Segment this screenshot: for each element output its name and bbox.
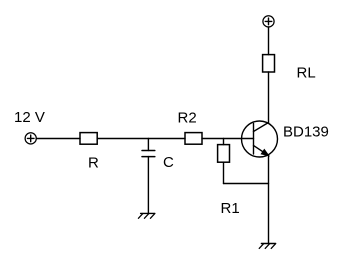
resistor R2 xyxy=(185,133,202,145)
wire R1 to emitter xyxy=(224,162,269,183)
wire source to R xyxy=(36,138,80,140)
wire RL to collector xyxy=(268,72,270,123)
svg-text:BD139: BD139 xyxy=(283,124,329,141)
resistor R xyxy=(80,133,97,145)
resistor R1 xyxy=(218,145,230,163)
transistor Q1 BD139 xyxy=(242,121,278,157)
svg-text:R2: R2 xyxy=(178,110,197,127)
wire V+ to RL xyxy=(268,27,270,55)
ground (under C) xyxy=(138,213,154,218)
svg-text:12 V: 12 V xyxy=(14,109,45,126)
wire base node to R1 xyxy=(223,139,225,145)
ground (emitter) xyxy=(259,244,275,249)
resistor RL xyxy=(263,55,275,72)
svg-text:R1: R1 xyxy=(221,200,240,217)
svg-text:RL: RL xyxy=(297,65,316,82)
svg-text:R: R xyxy=(88,155,99,172)
wire R2 to base xyxy=(202,138,254,140)
terminal 12V source xyxy=(25,133,36,144)
wire R to R2 (through capacitor node) xyxy=(97,138,185,140)
wire emitter to ground xyxy=(268,156,270,244)
terminal V+ (top supply) xyxy=(263,16,274,27)
svg-text:C: C xyxy=(163,154,174,171)
capacitor C xyxy=(142,139,155,214)
